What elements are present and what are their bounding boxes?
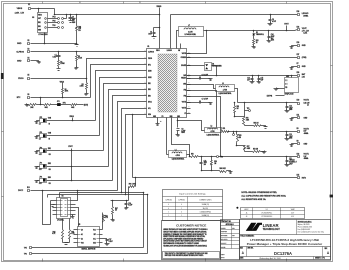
wire SCL fan [122, 109, 147, 193]
svg-text:L3: L3 [222, 83, 224, 85]
svg-text:0.1UF: 0.1UF [109, 241, 113, 243]
wire EN3 fan [113, 96, 147, 181]
wire FB1 divider node [202, 170, 220, 172]
svg-text:OFF: OFF [39, 169, 42, 171]
ground under C24 [268, 40, 270, 42]
svg-text:EN2: EN2 [38, 26, 41, 28]
svg-text:1UF: 1UF [261, 79, 264, 81]
svg-text:EN3: EN3 [48, 177, 51, 179]
ground at C7 [210, 102, 212, 104]
svg-text:CMHSH5-2L: CMHSH5-2L [256, 34, 264, 36]
svg-text:D1: D1 [256, 32, 258, 34]
svg-text:R56: R56 [246, 118, 249, 120]
wire TP5 SCL [32, 247, 144, 249]
svg-text:ILIM1: ILIM1 [148, 77, 152, 79]
wire SW2 to L3 [187, 85, 216, 89]
wire NTC fan [91, 65, 147, 98]
test point TP10 [233, 132, 235, 134]
resistor R1 [58, 61, 60, 67]
svg-text:OUT: OUT [38, 18, 41, 20]
capacitor C15 [258, 76, 260, 79]
ground after R53 [264, 151, 266, 153]
svg-text:CLPROG2: CLPROG2 [178, 200, 185, 202]
IC U6 [57, 198, 71, 219]
svg-text:SIZE: SIZE [240, 248, 243, 250]
approvals block [221, 220, 240, 260]
capacitor C16 [126, 201, 128, 204]
svg-text:VBUS: VBUS [156, 50, 160, 52]
capacitor C11 [286, 157, 288, 161]
ground under C6 [70, 20, 72, 22]
IC U8 [38, 13, 48, 33]
inductor L2 [205, 128, 222, 133]
capacitor C13 [286, 132, 288, 135]
svg-text:1.82 1.8V: 1.82 1.8V [304, 102, 310, 104]
wire U1 bottom pin to L1 [166, 118, 168, 155]
svg-text:-B: -B [246, 216, 248, 218]
svg-text:WP: WP [94, 234, 96, 236]
svg-text:ON: ON [49, 154, 51, 156]
svg-text:C12: C12 [289, 106, 292, 108]
wire VBUS down to U1 [159, 15, 161, 49]
svg-text:GND: GND [170, 116, 173, 118]
ground at E19 [291, 46, 293, 47]
resistor R67 [112, 201, 114, 207]
svg-text:VBUS: VBUS [60, 81, 64, 83]
svg-text:LDO3V3: LDO3V3 [167, 50, 172, 52]
svg-text:R62: R62 [256, 40, 259, 42]
svg-text:PROG: PROG [18, 78, 24, 80]
resistor R64 [62, 219, 64, 230]
svg-text:VSS: VSS [81, 243, 84, 245]
wire E8 to ground [292, 143, 298, 145]
svg-text:C1: C1 [55, 55, 57, 57]
svg-text:VBUS: VBUS [17, 8, 23, 10]
svg-text:Wednesday, April 30, 2008: Wednesday, April 30, 2008 [259, 257, 280, 260]
capacitor C14 [252, 76, 254, 79]
svg-text:10UF: 10UF [289, 163, 293, 165]
svg-text:LTC3555EUFD-1: LTC3555EUFD-1 [261, 213, 272, 215]
customer notice inner box [163, 252, 220, 259]
wire L1 to R58 [187, 155, 190, 157]
svg-text:NTC: NTC [148, 64, 151, 66]
ground under C16 [126, 207, 128, 208]
diode D2 dual [187, 65, 205, 67]
svg-text:5: 5 [140, 2, 141, 4]
wire E4 to ground [31, 60, 39, 62]
wire RST3 to R66 [135, 178, 137, 187]
ground after R60 [230, 171, 232, 172]
svg-text:VOUT1: VOUT1 [304, 154, 309, 156]
wire SDA fan [126, 115, 147, 195]
svg-text:PB: PB [285, 87, 287, 89]
svg-text:E17: E17 [297, 54, 300, 56]
resistor R53 [245, 151, 253, 153]
svg-text:TP6: TP6 [24, 253, 27, 255]
svg-text:EN1: EN1 [148, 83, 151, 85]
svg-text:0805: 0805 [72, 22, 76, 24]
resistor R58 [190, 156, 191, 158]
svg-text:VOUT: VOUT [68, 146, 72, 148]
svg-text:R51: R51 [223, 128, 226, 130]
customer notice block [162, 221, 221, 260]
ground at C4 [210, 78, 212, 80]
wire FB2 sense [187, 91, 217, 128]
svg-text:Fax: (408)434-0507: Fax: (408)434-0507 [298, 229, 311, 231]
resistor R55 [236, 132, 238, 135]
svg-text:DC1376A: DC1376A [274, 251, 292, 256]
resistor R59 [211, 157, 213, 161]
capacitor C6 [70, 15, 72, 18]
capacitor C8 [177, 128, 180, 130]
capacitor C12 [286, 103, 288, 107]
title block [240, 220, 331, 260]
svg-text:U1: U1 [147, 46, 149, 48]
svg-text:10UF: 10UF [289, 107, 293, 109]
svg-text:TP5: TP5 [24, 247, 27, 249]
svg-text:4.1V: 4.1V [291, 216, 294, 218]
svg-text:U1: U1 [266, 209, 268, 211]
svg-text:1 2: 1 2 [285, 80, 287, 82]
svg-text:GND: GND [153, 116, 156, 118]
svg-text:R53 1M: R53 1M [253, 148, 259, 150]
ground after R54 [265, 126, 267, 127]
resistor R65 [69, 219, 71, 230]
svg-text:TP16: TP16 [52, 25, 55, 27]
inductor L3 [216, 85, 235, 92]
wire L7 output [204, 30, 295, 32]
svg-text:RST3: RST3 [302, 177, 306, 179]
wire PROG to fan [31, 78, 87, 80]
svg-text:R66: R66 [129, 184, 132, 186]
svg-text:R60 301K: R60 301K [220, 168, 226, 170]
svg-text:TP15: TP15 [52, 21, 55, 23]
svg-text:R59: R59 [214, 161, 217, 163]
svg-text:JP3: JP3 [39, 162, 42, 164]
wire to C2 [154, 27, 160, 29]
resistor R5 [86, 79, 88, 83]
wire ILIM0 fan [96, 71, 147, 121]
svg-text:C8: C8 [181, 129, 183, 131]
svg-text:R57: R57 [247, 146, 250, 148]
svg-text:Power Manager + Triple Step-Do: Power Manager + Triple Step-Down DC/DC C… [247, 242, 323, 246]
ground under C15 [258, 81, 260, 82]
capacitor C7 [187, 102, 200, 104]
svg-text:E20: E20 [297, 72, 300, 74]
svg-text:VOUT: VOUT [284, 24, 288, 26]
wire EN1 fan [104, 84, 147, 151]
wire RST3 riser [132, 115, 134, 178]
resistor R54 [245, 125, 254, 127]
svg-text:C11: C11 [289, 158, 292, 160]
svg-text:CUSTOMER NOTICE: CUSTOMER NOTICE [176, 223, 206, 227]
svg-text:CLPROG: CLPROG [148, 52, 154, 54]
resistor R62 [253, 39, 255, 45]
svg-text:EN1: EN1 [48, 148, 51, 150]
wire D2 to BAT rail [212, 66, 217, 76]
svg-text:0805: 0805 [289, 138, 292, 140]
wire LDO3V3 rail [171, 14, 298, 16]
svg-text:NOTE: UNLESS OTHERWISE NOTED,: NOTE: UNLESS OTHERWISE NOTED, [241, 192, 277, 194]
svg-text:1206: 1206 [271, 40, 275, 42]
svg-text:CLPROG: CLPROG [16, 52, 24, 54]
wire JP2 to U1 [47, 150, 104, 152]
svg-text:Input Current Limit Settings: Input Current Limit Settings [179, 193, 206, 196]
wire DVCC fan [118, 102, 147, 191]
resistor R8 [71, 104, 77, 106]
resistor R6 [62, 83, 64, 89]
svg-text:ISSUED: ISSUED [221, 246, 226, 248]
capacitor C9 [270, 15, 272, 20]
svg-text:E16: E16 [297, 26, 300, 28]
svg-text:E5: E5 [28, 75, 30, 77]
test point TP9 [249, 110, 251, 112]
wire BAT to E20 [297, 75, 298, 77]
ground under C13 [286, 138, 288, 139]
U1 right pin numbers [187, 53, 191, 55]
wire E7 to ground [292, 66, 298, 68]
svg-text:10UF: 10UF [148, 33, 152, 35]
svg-text:OFF: OFF [39, 183, 42, 185]
ground at E7 [291, 67, 293, 68]
svg-text:U5: U5 [78, 224, 80, 226]
assembly table bullet [236, 207, 238, 209]
wire U8 GND down [44, 33, 46, 44]
wire VOUT2 rail [238, 102, 298, 104]
wire VBUS rail [55, 14, 160, 16]
ground under C11 [286, 164, 288, 165]
svg-text:SCL: SCL [148, 108, 151, 110]
svg-text:10UF: 10UF [289, 136, 293, 138]
wire EN2 fan [109, 90, 147, 167]
ground under C17 [106, 243, 108, 244]
svg-text:16V: 16V [204, 164, 207, 166]
svg-text:10UF: 10UF [204, 162, 208, 164]
svg-text:LDO3V3: LDO3V3 [302, 13, 309, 15]
svg-text:Phone: (408)432-1900: Phone: (408)432-1900 [298, 227, 313, 229]
capacitor C24 [268, 30, 270, 32]
ground at JP4 [36, 180, 38, 182]
svg-text:10UF: 10UF [271, 36, 275, 38]
ground at SW1 [277, 88, 285, 90]
resistor R60 [220, 171, 227, 173]
wire GND rail [31, 43, 77, 45]
svg-text:TP8: TP8 [221, 157, 224, 159]
wire JP6 to U1 [47, 135, 100, 137]
svg-text:0.1UF: 0.1UF [128, 205, 132, 207]
ground at E11 [291, 118, 293, 120]
ground under R64 R65 [63, 242, 70, 244]
NTC divider row wire [40, 98, 42, 105]
resistor R4 [29, 104, 37, 106]
svg-text:1UF: 1UF [247, 79, 250, 81]
svg-text:R63: R63 [105, 215, 108, 217]
svg-text:GND: GND [38, 30, 41, 32]
jumper pins on U8 row 1 [48, 18, 58, 20]
svg-text:LTC3555EUFD-3: LTC3555EUFD-3 [261, 216, 272, 218]
wire U6 right to U5 [76, 191, 78, 201]
wire VOUT1 rail [199, 156, 298, 158]
svg-text:6: 6 [80, 2, 81, 4]
resistor R56 [234, 116, 236, 118]
svg-text:E10: E10 [297, 99, 300, 101]
ground under R2 [76, 67, 78, 68]
test point TP8 [217, 156, 219, 158]
wire OVB to E17 [191, 57, 298, 59]
svg-text:ON: ON [49, 169, 51, 171]
svg-text:EN3: EN3 [148, 95, 151, 97]
svg-text:R1: R1 [60, 61, 62, 63]
wire VBUS stub [159, 8, 161, 15]
svg-text:E7: E7 [297, 63, 299, 65]
resistor R63 [103, 215, 105, 223]
svg-text:C9: C9 [272, 19, 274, 21]
svg-text:ILIM0: ILIM0 [148, 71, 152, 73]
svg-text:TMK212: TMK212 [289, 160, 295, 162]
svg-text:0805: 0805 [181, 132, 185, 134]
svg-text:VCC: VCC [93, 230, 96, 232]
svg-text:EN1: EN1 [38, 22, 41, 24]
wire SW4 riser [177, 31, 179, 49]
wire ILIM1 fan [100, 78, 147, 136]
capacitor C2 [153, 32, 156, 34]
svg-text:BJ106KG-T: BJ106KG-T [289, 162, 297, 164]
wire VOUT3 rail [229, 131, 298, 133]
svg-text:DWG NO.: DWG NO. [248, 248, 254, 250]
wire U1 bottom pin jog [172, 118, 190, 157]
svg-text:SCL: SCL [93, 238, 96, 240]
capacitor C10 [201, 157, 203, 163]
svg-text:TP9: TP9 [247, 108, 250, 110]
svg-text:R65: R65 [71, 231, 74, 233]
wire DVCC rail [31, 190, 118, 192]
wire R67 node [111, 200, 129, 202]
svg-text:EXTPB: EXTPB [267, 95, 273, 97]
wire U5 pins to pullups [102, 215, 104, 230]
resistor R51 [222, 130, 223, 132]
wire NTC to fan [31, 97, 91, 99]
resistor R7 [44, 104, 51, 106]
svg-text:EN2: EN2 [148, 89, 151, 91]
svg-text:R5: R5 [82, 84, 84, 86]
wire RST3 long [133, 177, 298, 179]
svg-text:VINLDO: VINLDO [181, 78, 186, 80]
svg-text:R67: R67 [115, 208, 118, 210]
wire U8 pin to VBUS [38, 9, 40, 13]
svg-text:10UF: 10UF [72, 18, 76, 20]
svg-text:VBUS: VBUS [69, 116, 73, 118]
ground at JP6 [36, 136, 38, 137]
wire TP6 SDA [32, 253, 148, 255]
svg-text:25V: 25V [271, 38, 274, 40]
svg-text:R68: R68 [78, 26, 81, 28]
resistor R2 [76, 52, 78, 55]
svg-text:SERIAL EEPROM: SERIAL EEPROM [81, 248, 96, 251]
wire JP3 to U1 [47, 166, 109, 168]
svg-text:E18: E18 [297, 11, 300, 13]
svg-text:C17: C17 [109, 239, 112, 241]
svg-text:JP6: JP6 [39, 132, 42, 134]
svg-text:1.2V: 1.2V [304, 156, 307, 158]
svg-text:DVCC: DVCC [18, 190, 24, 192]
svg-text:E2: E2 [28, 40, 30, 42]
svg-text:DVCC: DVCC [148, 102, 152, 104]
svg-text:EN2: EN2 [48, 163, 51, 165]
diode D1 [253, 30, 255, 32]
svg-text:VOUT2: VOUT2 [304, 100, 309, 102]
svg-text:L2: L2 [211, 126, 213, 128]
svg-text:E9: E9 [297, 128, 299, 130]
wire U1 GND pin to ground [157, 118, 159, 124]
wire SCL rail [60, 192, 144, 194]
svg-text:PROG: PROG [148, 58, 152, 60]
svg-text:4.35V - 5.5V: 4.35V - 5.5V [15, 11, 25, 14]
wire VBUS input [31, 8, 55, 10]
svg-text:R52: R52 [237, 106, 240, 108]
ground at E8 [291, 144, 293, 145]
border zone tick marks [42, 2, 44, 4]
svg-text:VC: VC [184, 113, 186, 115]
svg-text:R58: R58 [191, 154, 194, 156]
svg-text:R6: R6 [65, 89, 67, 91]
ground under C14 [252, 81, 254, 82]
svg-text:CHECKED: CHECKED [221, 231, 227, 233]
ground under C8 [177, 134, 179, 135]
svg-text:(OVB): (OVB) [302, 57, 307, 59]
svg-text:0805: 0805 [289, 109, 292, 111]
wire E19 to ground [292, 45, 298, 47]
ground under R5 [86, 93, 88, 94]
svg-text:E1: E1 [28, 4, 30, 6]
inductor L7 [179, 27, 204, 37]
svg-text:ALL RESISTORS ARE 1%.: ALL RESISTORS ARE 1%. [241, 198, 266, 201]
svg-text:VBUS: VBUS [38, 14, 42, 16]
resistor R57 [237, 145, 245, 147]
svg-text:C10: C10 [204, 160, 207, 162]
wire SW3 node to L2 [178, 121, 205, 131]
wire L3 to VOUT2 rail [235, 89, 238, 103]
wire JP4 to U1 [47, 180, 113, 182]
wire L7 out to U1 VOUT4 pin [191, 31, 207, 54]
svg-text:FB1: FB1 [184, 96, 187, 98]
svg-text:FB2: FB2 [184, 90, 187, 92]
svg-text:COMMENT (LIMIT): COMMENT (LIMIT) [199, 200, 212, 202]
svg-text:U6: U6 [62, 196, 64, 198]
svg-text:C13: C13 [289, 134, 292, 136]
svg-text:R2: R2 [78, 56, 80, 58]
svg-text:OVSENS: OVSENS [181, 57, 187, 59]
svg-text:TECHNOLOGY: TECHNOLOGY [263, 228, 281, 231]
svg-text:2.5V: 2.5V [304, 131, 307, 133]
resistor R52 [234, 103, 236, 106]
svg-text:E6: E6 [28, 94, 30, 96]
wire E11 to ground [292, 117, 298, 119]
wire LDO3V3 riser [170, 15, 172, 49]
ground at U6 right [72, 216, 74, 217]
jumper pins on U8 row 2 [48, 22, 58, 24]
wire JP5 to U1 [47, 120, 96, 122]
wire SDA rail [48, 194, 148, 196]
svg-text:R55: R55 [239, 135, 242, 137]
ground under R1 [58, 68, 60, 70]
svg-text:GND: GND [17, 61, 22, 63]
input current limit table [163, 190, 223, 221]
svg-text:U8: U8 [32, 17, 34, 19]
svg-text:C2: C2 [150, 32, 152, 34]
ground left of R4 [26, 104, 28, 105]
ground at E4 [38, 61, 40, 62]
ground under C12 [286, 110, 288, 111]
